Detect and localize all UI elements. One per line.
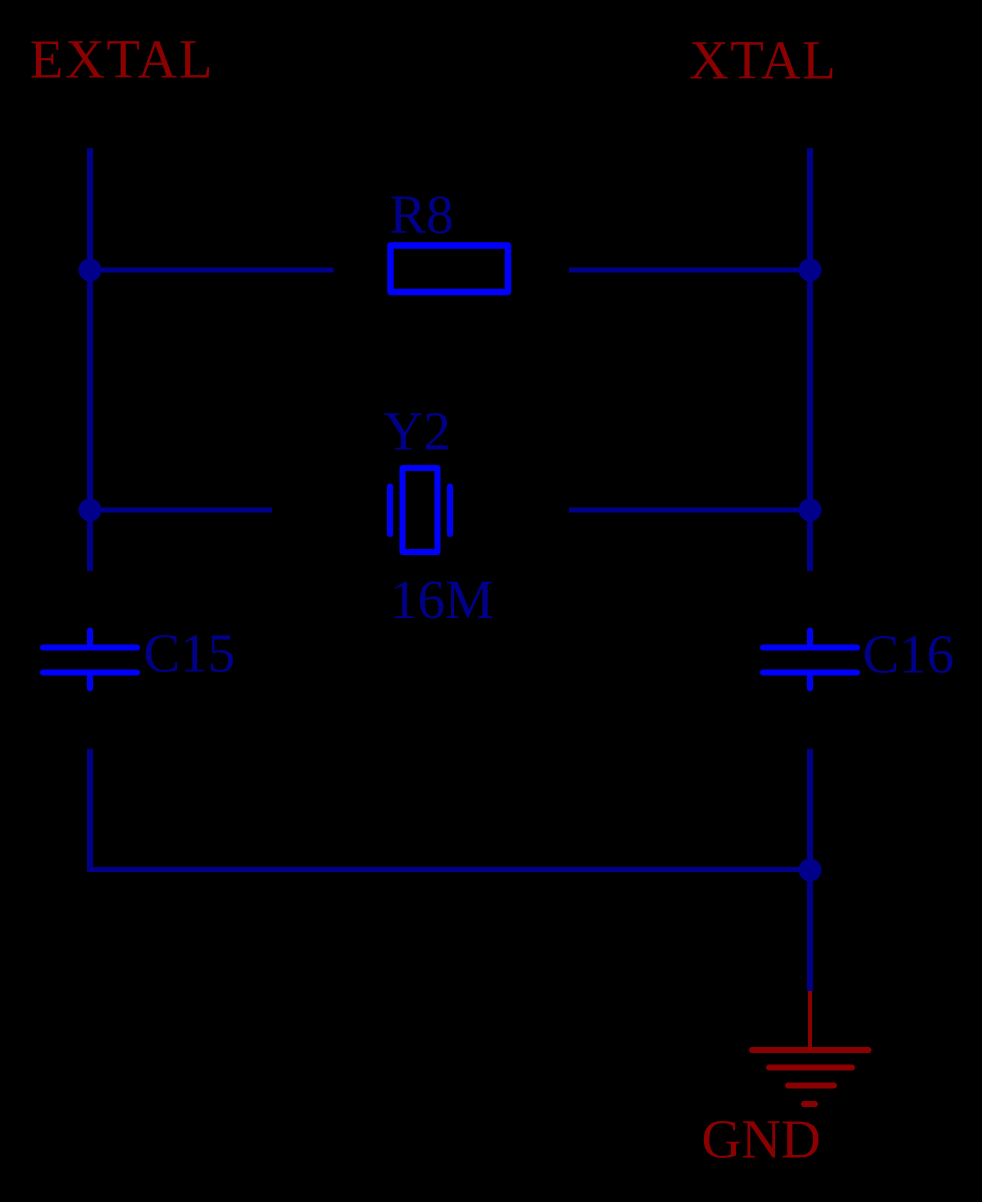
svg-text:GND: GND [702, 1109, 821, 1170]
svg-text:EXTAL: EXTAL [30, 29, 214, 90]
svg-text:C15: C15 [144, 623, 236, 684]
svg-text:XTAL: XTAL [689, 30, 837, 91]
svg-text:R8: R8 [390, 184, 454, 245]
svg-text:C16: C16 [863, 624, 955, 685]
svg-text:16M: 16M [390, 569, 494, 630]
svg-text:Y2: Y2 [384, 401, 451, 462]
